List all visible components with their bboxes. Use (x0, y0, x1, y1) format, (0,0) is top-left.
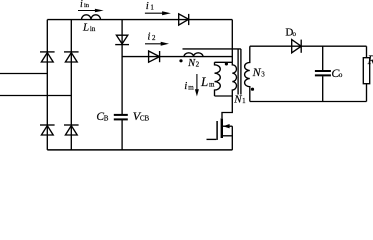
svg-text:in: in (84, 2, 90, 9)
resistor R box (363, 58, 369, 84)
transformer loop bottom (215, 95, 233, 97)
svg-text:1: 1 (150, 4, 154, 12)
svg-text:L: L (200, 74, 208, 89)
dot N1 (225, 62, 228, 65)
diode D2 (149, 51, 160, 62)
arrow i2 (145, 42, 169, 46)
wire bridge column 1 (46, 20, 48, 150)
svg-text:i: i (147, 31, 150, 43)
wire AC input stub 1 (0, 73, 47, 75)
winding Lm (215, 62, 221, 96)
arrow im down (195, 74, 199, 96)
diode bridge top-right (64, 52, 79, 62)
mosfet Q channel bar (221, 118, 223, 138)
wire top rail (47, 19, 232, 21)
mosfet source stub (223, 135, 232, 137)
svg-text:N: N (252, 65, 262, 79)
wire bridge column 2 (70, 20, 72, 150)
dot N3 (251, 88, 254, 91)
wire node A vertical with CB branch (121, 20, 123, 150)
svg-text:1: 1 (242, 97, 246, 105)
svg-text:i: i (80, 0, 83, 10)
dot N2 (179, 59, 182, 62)
svg-text:L: L (82, 21, 89, 33)
wire bottom rail (47, 149, 232, 151)
core line vertical right (240, 49, 242, 95)
wire AC input stub 2 (0, 95, 71, 97)
svg-text:m: m (209, 80, 215, 88)
output loop top (250, 45, 367, 47)
arrow i1 (145, 11, 171, 15)
arrow i_in (78, 9, 104, 13)
diode D1 (179, 14, 189, 25)
wire main right vertical (231, 20, 233, 63)
wire row 2 (122, 56, 232, 58)
wire mosfet right vertical (231, 126, 233, 150)
svg-text:o: o (293, 30, 297, 38)
mosfet gate lead (207, 138, 217, 140)
winding N3 (245, 46, 250, 101)
transformer loop top (215, 61, 233, 63)
mosfet body arrow line (223, 125, 232, 127)
output loop bottom (250, 101, 367, 103)
diode D3 down (115, 35, 129, 44)
core line horizontal above N2 (183, 48, 241, 50)
svg-text:in: in (90, 25, 96, 33)
svg-text:B: B (104, 114, 109, 122)
output loop right (366, 46, 368, 101)
svg-text:R: R (367, 53, 373, 67)
mosfet gate bar (216, 121, 218, 140)
diode bridge top-left (40, 52, 55, 62)
core line vertical left (237, 50, 239, 95)
svg-text:N: N (233, 93, 242, 105)
svg-text:2: 2 (152, 34, 156, 42)
capacitor CB (114, 115, 128, 120)
diode bridge bottom-right (64, 125, 79, 135)
svg-text:i: i (184, 80, 187, 92)
wire drain jog (222, 96, 232, 118)
inductor Lin (82, 15, 101, 20)
winding N2 (184, 53, 203, 57)
svg-text:o: o (339, 71, 343, 79)
svg-text:3: 3 (261, 70, 265, 78)
svg-text:2: 2 (196, 60, 200, 68)
capacitor Co plates (315, 71, 331, 75)
svg-text:m: m (188, 83, 194, 91)
svg-text:CB: CB (140, 115, 150, 123)
diode bridge bottom-left (40, 125, 55, 135)
svg-text:i: i (146, 0, 149, 12)
diode Do (292, 40, 302, 53)
capacitor Co branch (322, 46, 324, 101)
winding N1 (232, 62, 236, 96)
